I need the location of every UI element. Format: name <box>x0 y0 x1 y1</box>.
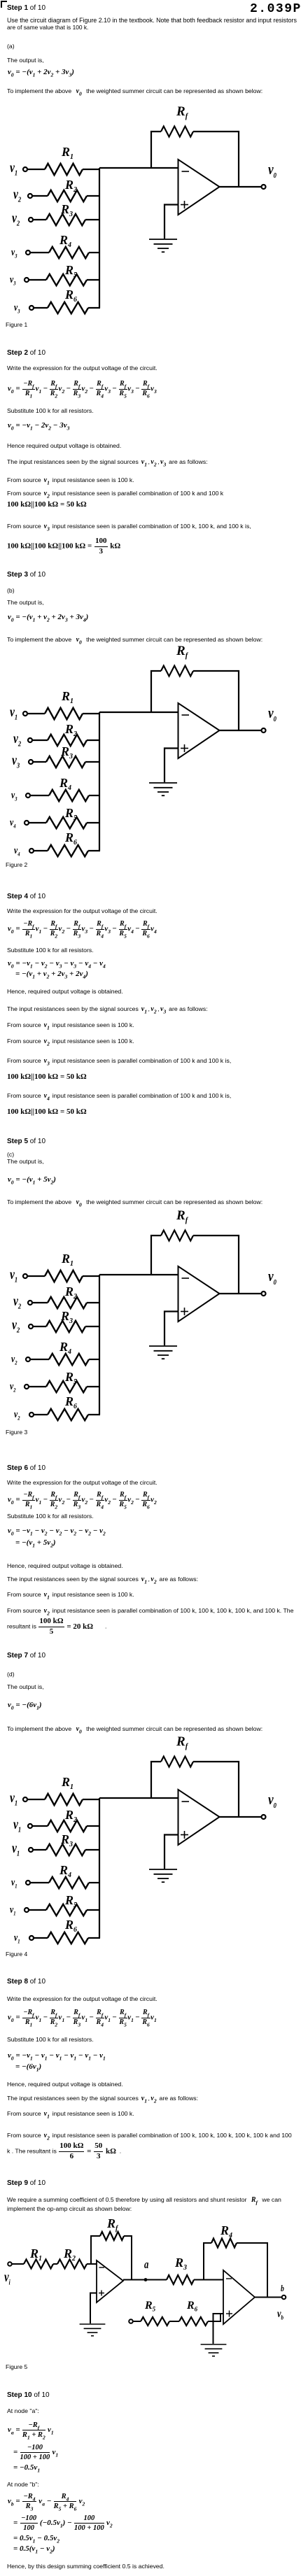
page corner mark <box>1 1 7 2</box>
wire from bus to op-amp inverting input <box>99 167 178 169</box>
wire from terminal to resistor R1 <box>27 169 45 170</box>
wire: feedback resistor Rf to output node <box>193 1236 239 1294</box>
input terminal v1 (row 1) <box>23 712 27 716</box>
wire from bus to op-amp inverting input <box>99 1797 178 1799</box>
op-amp U1 triangle <box>178 1790 220 1845</box>
resistor R1 <box>24 2260 53 2269</box>
wire: feedback tap of A1 <box>91 2236 100 2264</box>
resistor R3 <box>46 1844 85 1855</box>
output terminal node v0 <box>262 1291 266 1296</box>
feedback resistor Rf <box>161 1231 193 1241</box>
input terminal v3 (row 5) <box>24 278 29 282</box>
A1 non-inverting (+) mark <box>99 2291 104 2296</box>
resistor R2 <box>48 735 87 746</box>
A1 inverting (-) mark <box>99 2267 105 2268</box>
input terminal v2 (row 2) <box>28 194 32 198</box>
op-amp inverting input (-) mark <box>182 1801 190 1802</box>
op-amp non-inverting input (+) mark <box>181 744 188 752</box>
input terminal v1 (row 1) <box>23 1274 27 1278</box>
wire from terminal to resistor R2 <box>32 739 48 741</box>
op-amp non-inverting input (+) mark <box>181 201 188 208</box>
wire from resistor R6 to summing bus <box>88 1414 100 1415</box>
wire: op-amp output <box>220 1816 262 1818</box>
wire from resistor R5 to summing bus <box>87 822 100 823</box>
wire from + input to ground <box>164 749 178 783</box>
summing bus wire (inverting input node) <box>99 712 100 851</box>
input terminal v3 (row 4) <box>26 793 30 798</box>
wire from + input to ground <box>164 205 178 239</box>
input terminal v2 (row 3) <box>29 218 33 222</box>
wire vi to R1 <box>12 2263 24 2265</box>
resistor R6 <box>179 2317 208 2326</box>
wire from terminal to resistor R2 <box>32 1302 48 1303</box>
wire from terminal to resistor R3 <box>33 1326 46 1327</box>
svg-text:R5: R5 <box>144 2300 156 2313</box>
op-amp A2 triangle <box>223 2270 255 2324</box>
resistor R1 <box>45 1271 83 1282</box>
wire from terminal to resistor R5 <box>29 822 46 823</box>
resistor R6 <box>48 1409 88 1420</box>
wire from terminal to resistor R5 <box>29 279 46 281</box>
wire from resistor R5 to summing bus <box>87 279 100 281</box>
op-amp non-inverting input (+) mark <box>181 1831 188 1839</box>
Figure 1: weighted summer circuit <box>23 127 266 314</box>
wire from terminal to resistor R6 <box>34 1937 48 1939</box>
resistor R1 <box>45 708 83 719</box>
wire: op-amp output <box>220 730 262 731</box>
input terminal v1 (row 3) <box>29 1848 33 1852</box>
wire from terminal to resistor R3 <box>33 761 46 763</box>
svg-text:b: b <box>281 2284 284 2294</box>
resistor R6 <box>48 302 88 313</box>
wire from terminal to resistor R5 <box>29 1386 46 1387</box>
svg-text:vb: vb <box>277 2308 283 2321</box>
resistor R5 <box>46 1904 87 1916</box>
summing bus wire (inverting input node) <box>99 1275 100 1415</box>
wire: A1 output to node a and R3 <box>123 2279 167 2281</box>
input terminal v1 (row 6) <box>29 1936 34 1940</box>
wire from resistor R1 to summing bus <box>83 1275 100 1277</box>
wire R2 to op-amp A1 inverting input <box>87 2263 97 2265</box>
wire from bus to op-amp inverting input <box>99 1274 178 1275</box>
wire from resistor R3 to summing bus <box>85 219 100 220</box>
wire from terminal to resistor R3 <box>33 1849 46 1850</box>
wire A2 + input to ground <box>213 2314 224 2344</box>
wire: feedback resistor Rf to output node <box>193 132 239 187</box>
resistor R3 <box>167 2275 194 2284</box>
svg-text:a: a <box>144 2258 149 2271</box>
output terminal node v0 <box>262 185 266 189</box>
wire: feedback tap up from inverting input <box>151 671 161 712</box>
input terminal v4 (row 5) <box>24 821 29 825</box>
resistor R3 <box>46 756 85 767</box>
wire from bus to op-amp inverting input <box>99 712 178 713</box>
wire: feedback tap up from inverting input <box>151 1762 161 1798</box>
resistor R5 <box>46 1381 87 1392</box>
wire from resistor R6 to summing bus <box>88 1937 100 1939</box>
wire from resistor R2 to summing bus <box>87 1825 100 1827</box>
op-amp U1 triangle <box>178 1266 220 1322</box>
wire: A2 output to terminal b <box>255 2297 282 2298</box>
resistor R2 <box>48 1297 87 1308</box>
wire from resistor R4 to summing bus <box>89 1359 100 1360</box>
Figure 5: two-stage op-amp circuit <box>8 2232 286 2356</box>
wire from terminal to resistor R1 <box>27 713 45 714</box>
wire R5 to R6 <box>169 2321 179 2322</box>
wire: feedback resistor Rf to output node <box>193 671 239 730</box>
wire from resistor R4 to summing bus <box>89 795 100 796</box>
ground symbol <box>149 1346 177 1359</box>
wire from terminal to resistor R4 <box>30 252 49 253</box>
ground symbol <box>149 783 177 795</box>
feedback resistor R4 <box>211 2239 237 2248</box>
Figure 4: weighted summer circuit <box>23 1757 266 1944</box>
input terminal v1 (row 4) <box>26 1881 30 1885</box>
wire from resistor R1 to summing bus <box>83 169 100 170</box>
op-amp inverting input (-) mark <box>182 1278 190 1279</box>
resistor R6 <box>48 845 88 856</box>
input terminal v1 (row 5) <box>24 1908 29 1912</box>
svg-text:R6: R6 <box>186 2300 198 2313</box>
svg-text:vi: vi <box>4 2269 10 2286</box>
resistor R2 <box>57 2260 87 2269</box>
wire from resistor R2 to summing bus <box>87 1302 100 1303</box>
wire from terminal to resistor R1 <box>27 1799 45 1800</box>
wire from resistor R6 to summing bus <box>88 307 100 309</box>
output terminal node v0 <box>262 1815 266 1819</box>
wire from terminal to resistor R2 <box>32 195 48 197</box>
wire from terminal to resistor R2 <box>32 1825 48 1827</box>
input terminal v3 (row 3) <box>29 760 33 764</box>
wire: op-amp output <box>220 1293 262 1294</box>
wire: feedback resistor Rf to output node <box>193 1762 239 1817</box>
feedback resistor Rf <box>161 127 193 137</box>
resistor R6 <box>48 1932 88 1944</box>
resistor R3 <box>46 1321 85 1332</box>
shunt branch input terminal <box>129 2319 133 2323</box>
wire: feedback tap up from inverting input <box>151 1236 161 1275</box>
svg-text:Rf: Rf <box>106 2216 119 2232</box>
wire from resistor R1 to summing bus <box>83 713 100 714</box>
input terminal v2 (row 2) <box>28 1301 32 1305</box>
wire from terminal to resistor R6 <box>34 1414 48 1415</box>
wire: feedback tap of A2 <box>204 2243 211 2280</box>
wire from terminal to resistor R4 <box>30 1882 49 1883</box>
op-amp U1 triangle <box>178 160 220 215</box>
summing bus wire (inverting input node) <box>99 168 100 308</box>
wire Rf to node a <box>124 2236 132 2279</box>
wire from resistor R3 to summing bus <box>85 1849 100 1850</box>
input terminal v2 (row 5) <box>24 1385 29 1389</box>
input terminal v1 (row 1) <box>23 167 27 171</box>
ground symbol <box>149 1869 177 1882</box>
output terminal node v0 <box>262 728 266 733</box>
summing bus wire (inverting input node) <box>99 1798 100 1938</box>
wire R4 to A2 output <box>237 2243 267 2298</box>
ground symbol <box>149 239 177 252</box>
wire from terminal to resistor R6 <box>34 850 48 851</box>
op-amp inverting input (-) mark <box>182 714 190 716</box>
wire R6 up to A2 + input <box>208 2314 223 2321</box>
input terminal v3 (row 4) <box>26 250 30 255</box>
ground symbol (A1) <box>80 2324 106 2336</box>
input terminal v2 (row 4) <box>26 1357 30 1361</box>
wire from + input to ground <box>164 1835 178 1869</box>
A2 inverting (-) mark <box>226 2278 232 2279</box>
resistor R3 <box>46 214 85 225</box>
feedback resistor Rf <box>161 666 193 677</box>
resistor R1 <box>45 1794 83 1805</box>
resistor R4 <box>49 1354 89 1365</box>
output terminal node b <box>282 2295 286 2300</box>
wire from resistor R4 to summing bus <box>89 1882 100 1883</box>
resistor R5 <box>46 274 87 285</box>
wire from terminal to resistor R4 <box>30 1359 49 1360</box>
op-amp non-inverting input (+) mark <box>181 1308 188 1315</box>
op-amp inverting input (-) mark <box>182 171 190 172</box>
wire from terminal to resistor R1 <box>27 1275 45 1277</box>
wire from resistor R3 to summing bus <box>85 761 100 763</box>
op-amp U1 triangle <box>178 703 220 758</box>
wire A1 + input to ground <box>90 2293 97 2324</box>
resistor R1 <box>45 164 83 175</box>
wire: op-amp output <box>220 186 262 187</box>
svg-text:R3: R3 <box>174 2256 187 2272</box>
feedback resistor Rf <box>100 2232 124 2240</box>
wire from + input to ground <box>164 1312 178 1346</box>
wire from resistor R4 to summing bus <box>89 252 100 253</box>
wire from resistor R1 to summing bus <box>83 1799 100 1800</box>
op-amp A1 triangle <box>97 2260 123 2302</box>
input terminal v2 (row 2) <box>28 738 32 742</box>
wire terminal to R5 <box>133 2321 141 2322</box>
resistor R2 <box>48 190 87 201</box>
wire from resistor R3 to summing bus <box>85 1326 100 1327</box>
input terminal v2 (row 6) <box>29 1413 34 1417</box>
wire from terminal to resistor R6 <box>34 307 48 309</box>
svg-text:R1: R1 <box>29 2246 42 2263</box>
resistor R2 <box>48 1820 87 1832</box>
wire from terminal to resistor R3 <box>33 219 46 220</box>
wire from resistor R5 to summing bus <box>87 1386 100 1387</box>
input terminal v2 (row 3) <box>29 1324 33 1329</box>
input terminal vi <box>8 2262 12 2266</box>
resistor R4 <box>49 790 89 801</box>
wire from resistor R2 to summing bus <box>87 739 100 741</box>
wire from resistor R2 to summing bus <box>87 195 100 197</box>
input terminal v1 (row 1) <box>23 1797 27 1802</box>
resistor R5 <box>141 2317 169 2326</box>
ground symbol (A2) <box>201 2344 227 2356</box>
wire from resistor R6 to summing bus <box>88 850 100 851</box>
resistor R4 <box>49 247 89 258</box>
Figure 2: weighted summer circuit <box>23 666 266 857</box>
wire R3 to op-amp A2 inverting input <box>194 2279 223 2281</box>
feedback resistor Rf <box>161 1757 193 1767</box>
wire: feedback tap up from inverting input <box>151 132 161 168</box>
wire from terminal to resistor R4 <box>30 795 49 796</box>
input terminal v4 (row 6) <box>29 849 34 853</box>
wire from resistor R5 to summing bus <box>87 1909 100 1911</box>
svg-text:R2: R2 <box>63 2246 76 2263</box>
resistor R4 <box>49 1877 89 1888</box>
node a junction dot <box>144 2278 148 2281</box>
svg-text:R4: R4 <box>220 2223 232 2239</box>
resistor R5 <box>46 817 87 828</box>
input terminal v3 (row 6) <box>29 306 34 310</box>
wire R1 to R2 <box>53 2263 57 2265</box>
input terminal v1 (row 2) <box>28 1824 32 1828</box>
wire from terminal to resistor R5 <box>29 1909 46 1911</box>
Figure 3: weighted summer circuit <box>23 1231 266 1421</box>
A2 non-inverting (+) mark <box>226 2311 232 2317</box>
